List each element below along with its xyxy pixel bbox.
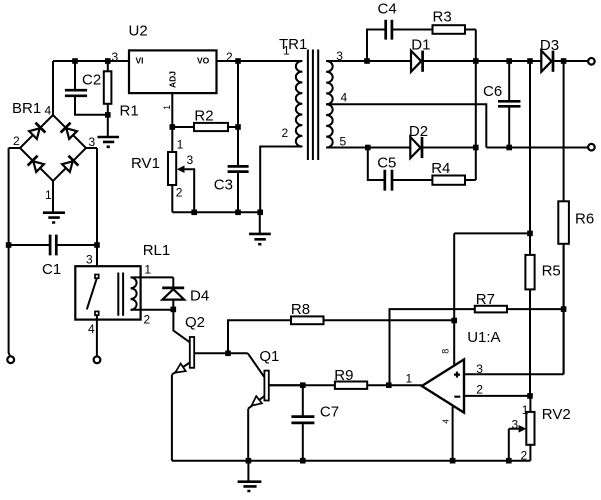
svg-text:3: 3 [512, 418, 519, 432]
capacitor C7 [291, 385, 339, 461]
relay RL1 [75, 242, 170, 336]
capacitor C3 [214, 166, 249, 212]
ground (TR1 primary return) [249, 212, 271, 244]
svg-text:VI: VI [136, 56, 144, 66]
wire op-amp pin4 to ground bus [452, 407, 454, 461]
svg-text:C5: C5 [377, 155, 396, 172]
terminal AC left [7, 356, 14, 363]
svg-text:R9: R9 [334, 367, 353, 384]
wire D1 cathode to rail [423, 60, 542, 62]
diode D3 [540, 37, 559, 72]
TR1 core [308, 50, 318, 161]
node junction D4 / Q2 collector / RL1 pin2 [171, 307, 177, 313]
capacitor C2 [65, 61, 105, 115]
svg-text:4: 4 [341, 91, 348, 105]
resistor R3 [433, 9, 466, 34]
svg-text:R2: R2 [194, 108, 213, 125]
wire top rail from BR1 pin4 to U2 VI [53, 60, 129, 62]
capacitor C5 [377, 155, 396, 191]
svg-text:2: 2 [144, 313, 151, 327]
node junction C3 / bus [235, 210, 241, 216]
wire C5 to R4 [392, 179, 432, 181]
svg-text:8: 8 [441, 349, 451, 354]
transistor Q2 [172, 309, 248, 460]
svg-text:3: 3 [187, 153, 194, 167]
ground (main bus) [238, 461, 262, 491]
svg-text:1: 1 [144, 263, 151, 277]
svg-text:D3: D3 [540, 37, 559, 54]
op-amp U1:A [422, 329, 501, 424]
wire D2 cathode to snubber vertical [422, 147, 476, 149]
wire C3 riser from VO rail [237, 61, 239, 166]
svg-text:C4: C4 [378, 1, 397, 18]
Q2 base wire [194, 352, 248, 354]
svg-text:RV1: RV1 [131, 155, 160, 172]
node junction - input / R5 / RV2 [527, 393, 533, 399]
svg-text:C3: C3 [214, 177, 233, 194]
node junction ADJ / R2 left [170, 124, 176, 130]
wire TR1 pin2 [260, 147, 302, 213]
wire supply to op-amp pin8 [454, 233, 530, 365]
wire R6 riser from D3 cathode [563, 61, 565, 201]
capacitor C4 [378, 1, 397, 40]
wire R4 to vertical [465, 179, 476, 181]
svg-text:C2: C2 [82, 72, 101, 89]
capacitor C6 [483, 61, 521, 148]
svg-text:U2: U2 [129, 23, 148, 40]
svg-text:R4: R4 [431, 160, 450, 177]
svg-text:2: 2 [476, 383, 483, 397]
node junction R2 right / C3 riser [235, 124, 241, 130]
svg-text:Q2: Q2 [185, 314, 205, 331]
svg-text:C7: C7 [320, 404, 339, 421]
Q2 emitter with arrow [172, 363, 190, 461]
resistor R4 [431, 160, 465, 185]
node junction VO rail / C3 riser [235, 58, 241, 64]
wire U2 VO to TR1 pin1 [217, 60, 303, 62]
wire tap3 to D1 [326, 60, 411, 62]
svg-text:2: 2 [282, 126, 289, 140]
svg-text:1: 1 [522, 403, 529, 417]
node junction R9 left / C7 [300, 382, 306, 388]
svg-text:2: 2 [13, 134, 20, 148]
svg-text:3: 3 [112, 50, 119, 64]
svg-text:1: 1 [406, 372, 413, 386]
wire D3 cathode to terminal [553, 60, 588, 62]
node junction R7 right / R6 line [561, 306, 567, 312]
svg-text:BR1: BR1 [12, 100, 41, 117]
svg-text:2: 2 [176, 186, 183, 200]
RL1 coil core [118, 273, 123, 316]
svg-text:3: 3 [476, 362, 483, 376]
node junction RV2 wiper / bus [506, 458, 512, 464]
svg-text:1: 1 [283, 44, 290, 58]
resistor R9 [269, 367, 367, 389]
resistor R6 [558, 201, 594, 374]
TR1 primary winding [296, 61, 302, 147]
resistor R5 [525, 233, 560, 396]
ground (under R1) [98, 115, 120, 147]
svg-text:1: 1 [177, 138, 184, 152]
wire BR1 pin4 riser [52, 61, 54, 115]
node junction RV1 wiper / bus [191, 210, 197, 216]
wire snubber2 branch down [368, 148, 385, 181]
svg-text:5: 5 [340, 135, 347, 149]
wire lower rail to terminal [486, 147, 588, 149]
svg-text:R1: R1 [120, 103, 139, 120]
ground (BR1 pin1) [43, 213, 65, 223]
svg-text:1: 1 [45, 188, 52, 202]
svg-text:U1:A: U1:A [467, 329, 500, 346]
RL1 switch contacts [95, 275, 99, 279]
node junction C2 top [72, 58, 78, 64]
wire RL1 pin4 to terminal [96, 315, 98, 356]
svg-text:R7: R7 [476, 291, 495, 308]
potentiometer RV1 [131, 127, 194, 212]
resistor R1 [104, 63, 139, 120]
svg-text:D1: D1 [411, 37, 430, 54]
node junction C1 right [94, 242, 100, 248]
terminal AC right [94, 356, 101, 363]
wire bottom bus RV1 to TR1 ground [172, 211, 260, 213]
node junction op-amp pin4 / bus [450, 458, 456, 464]
terminal output - [588, 144, 595, 151]
node junction Q2 base / R8 [225, 351, 231, 357]
diode D4 [162, 277, 209, 309]
svg-text:4: 4 [442, 419, 451, 424]
wire BR1 pin1 to ground [52, 181, 54, 212]
svg-text:3: 3 [89, 135, 96, 149]
wire op-amp - input [464, 395, 530, 397]
svg-text:R3: R3 [433, 9, 452, 26]
wire snubber vertical (R3/D1/D2/R4 common) [475, 30, 477, 181]
wire tap4 stepped to lower rail [326, 104, 486, 147]
wire op-amp + input [464, 244, 564, 374]
node junction tap3 / snubber C4 [364, 58, 370, 64]
node junction D1 out / snubber vertical [473, 58, 479, 64]
svg-text:ADJ: ADJ [168, 71, 178, 88]
svg-text:RL1: RL1 [143, 242, 171, 259]
svg-text:D4: D4 [190, 288, 209, 305]
wire tap5 to D2 [326, 147, 410, 149]
RL1 coil winding [131, 277, 137, 309]
node junction D2 out / snubber vertical [473, 145, 479, 151]
RL1 switch blade [87, 279, 97, 310]
wire U2 ADJ down [171, 93, 173, 127]
node junction TR1 pin2 riser / bus [257, 210, 263, 216]
wire ground bus bottom [172, 460, 530, 462]
diode D1 [411, 37, 430, 72]
svg-text:R6: R6 [575, 211, 594, 228]
svg-text:VO: VO [197, 56, 210, 66]
node junction pin8 line / R8 [451, 318, 457, 324]
svg-text:C6: C6 [483, 83, 502, 100]
svg-text:D2: D2 [409, 123, 428, 140]
terminal output + [588, 58, 595, 65]
node junction tap5 / snubber C5 [365, 145, 371, 151]
node junction output / R7 riser [386, 382, 392, 388]
capacitor C1 [9, 235, 97, 278]
svg-text:4: 4 [88, 322, 95, 336]
node junction R1 bottom / C2 [105, 112, 111, 118]
node junction C1 left [6, 242, 12, 248]
node junction C7 / bus [300, 458, 306, 464]
Q2 collector [173, 309, 189, 342]
transformer TR1 [279, 36, 348, 160]
Q1 emitter with arrow [248, 396, 264, 461]
node junction R1 top [105, 58, 111, 64]
resistor R2 [172, 108, 238, 132]
TR1 secondary winding [326, 61, 332, 147]
resistor R7 [390, 291, 564, 385]
svg-text:4: 4 [45, 104, 52, 118]
resistor R8 [228, 301, 454, 353]
node junction Q1 emitter / bus [246, 458, 252, 464]
node junction D3 out / R6 riser [561, 58, 567, 64]
IC U2 regulator [129, 23, 217, 94]
bridge rectifier BR1 [12, 100, 96, 202]
wire op-amp output [367, 384, 422, 386]
node junction lower rail / C6 bottom [506, 145, 512, 151]
wire RL1 pin1 to D4 [141, 276, 174, 278]
wire Q2 base to Q1 collector diagonal [248, 353, 265, 377]
node junction rail / C6 top [506, 58, 512, 64]
potentiometer RV2 [509, 396, 571, 463]
svg-text:RV2: RV2 [542, 406, 571, 423]
wire BR1 pin3 down to RL1 [86, 148, 97, 266]
node junction supply corner / R5 top [527, 231, 533, 237]
svg-text:3: 3 [86, 253, 93, 267]
Q1 base wire [269, 384, 303, 386]
diode D2 [409, 123, 428, 158]
wire RL1 pin2 to D4 anode node [141, 309, 174, 311]
svg-text:C1: C1 [42, 261, 61, 278]
svg-text:R8: R8 [291, 301, 310, 318]
wire BR1 pin2 down left side [9, 148, 20, 357]
wire R5 riser from rail [529, 61, 531, 233]
diode BR1 lower-left (1 to 2) [28, 156, 45, 173]
svg-text:Q1: Q1 [259, 348, 279, 365]
diode BR1 upper-right (3 to 4) [61, 123, 78, 140]
svg-text:1: 1 [162, 105, 172, 110]
Q2 base bar [190, 337, 194, 368]
diode BR1 upper-left (2 to 4) [28, 123, 45, 140]
node junction rail / R5 riser [527, 58, 533, 64]
svg-text:R5: R5 [542, 263, 561, 280]
diode BR1 lower-right (1 to 3) [61, 156, 78, 173]
wire C4 to R3 [392, 29, 433, 31]
wire snubber branch up [367, 30, 386, 62]
Q1 base bar [264, 371, 268, 401]
transistor Q1 [248, 348, 303, 461]
wire R3 to vertical [465, 29, 476, 31]
